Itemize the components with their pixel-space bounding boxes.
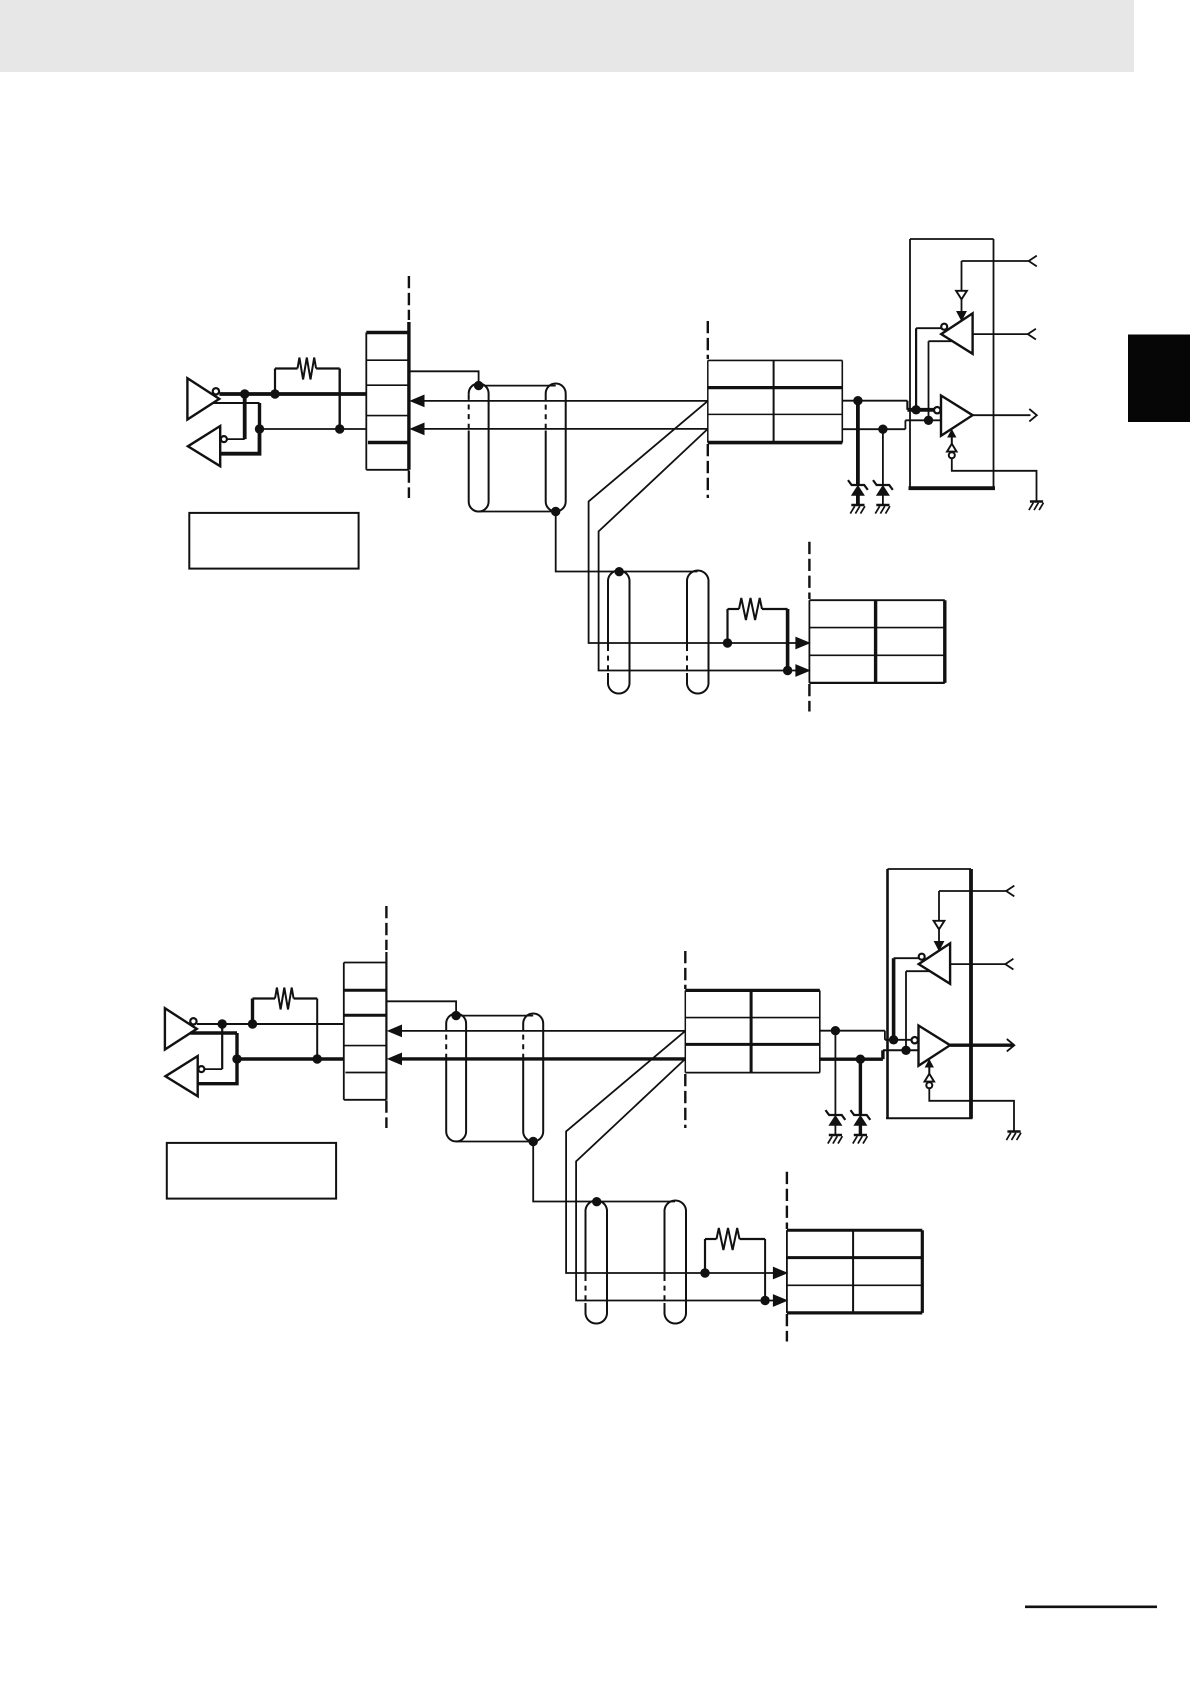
next-unit terminal table (4-wire): [808, 600, 810, 683]
wire A to receiver bubble (4-wire): [243, 394, 247, 439]
terminal block PLC side (4-wire): [365, 333, 367, 470]
wire driver output B (4-wire): [213, 402, 260, 404]
cable top chord (2-wire): [456, 1015, 533, 1017]
wire RD input from connector (2-wire): [939, 890, 1006, 892]
arrowhead into next-unit row3 (2-wire): [773, 1295, 787, 1306]
terminal block boundary line (4-wire): [407, 322, 410, 470]
terminating resistor R-next (4-wire): [726, 609, 728, 643]
connector chevron receiver out (2-wire): [1005, 959, 1013, 970]
dashed boundary below device table (2-wire): [684, 1074, 686, 1128]
dashed boundary below device table (4-wire): [707, 444, 709, 498]
shield junction dot top (4-wire): [474, 381, 483, 390]
enable open triangle (4-wire): [947, 444, 957, 452]
receiver inverter triangle (2-wire): [165, 1056, 197, 1096]
note label box (2-wire): [167, 1143, 336, 1199]
enable bubble (4-wire): [949, 452, 955, 458]
terminating resistor R-left (4-wire): [274, 369, 276, 395]
driver enable arrowhead (2-wire): [926, 1060, 934, 1067]
dashed boundary below block (2-wire): [385, 1101, 387, 1129]
wire shield daisy-chain (4-wire): [556, 512, 620, 572]
footer rule: [1025, 1606, 1157, 1609]
enable open triangle (2-wire): [925, 1074, 935, 1082]
driver output bubble (2-wire): [190, 1018, 196, 1024]
driver enable arrowhead (4-wire): [948, 430, 956, 437]
cable bottom chord (4-wire): [479, 511, 556, 513]
IC receiver output wire (4-wire): [973, 333, 1028, 335]
driver output bubble (4-wire): [213, 388, 219, 394]
dashed boundary below next-unit table (2-wire): [786, 1314, 788, 1342]
enable bubble (2-wire): [926, 1082, 932, 1088]
junction dot B2 resistor (4-wire): [335, 424, 344, 433]
junction dot A2 (4-wire): [270, 389, 279, 398]
IC receiver bubble (4-wire): [941, 324, 947, 330]
twisted pair loop 2a (2-wire): [586, 1200, 608, 1323]
wire row2 to transceiver (4-wire): [842, 400, 907, 402]
zener diode Z1 (2-wire): [826, 1110, 846, 1120]
wire bus A up to receiver (4-wire): [915, 328, 917, 410]
dashed boundary above device table (2-wire): [684, 951, 686, 989]
dashed boundary below next-unit table (4-wire): [808, 684, 810, 712]
junction dot A1 (2-wire): [218, 1019, 227, 1028]
wire RD input from connector (4-wire): [962, 260, 1029, 262]
twisted pair loop 1a (4-wire): [469, 383, 489, 511]
arrowhead RDB (2-wire): [388, 1053, 402, 1064]
filled arrowhead into receiver (4-wire): [957, 312, 966, 321]
shield dot pair2 (2-wire): [592, 1197, 601, 1206]
page header band: [0, 0, 1134, 72]
ground Z1 (4-wire) ground: [851, 504, 864, 507]
cable top chord (4-wire): [479, 385, 556, 387]
junction dot bus B (2-wire): [901, 1046, 910, 1055]
wire row3 to transceiver (2-wire): [820, 1057, 883, 1060]
receiver input bubble (2-wire): [198, 1066, 204, 1072]
arrowhead into next-unit row3 (4-wire): [796, 665, 810, 676]
wire RD input vertical (4-wire): [961, 261, 963, 291]
wire shield chord pair2 (2-wire): [597, 1201, 675, 1203]
wire RDB bus (2-wire): [399, 1057, 686, 1060]
connector chevron RD (2-wire): [1006, 886, 1014, 897]
twisted pair loop 2a (4-wire): [608, 570, 630, 693]
junction dot R2 right (4-wire): [783, 666, 792, 675]
input buffer open triangle (2-wire): [934, 921, 945, 930]
junction dot Z1 (4-wire): [853, 396, 862, 405]
IC driver output wire (4-wire): [973, 414, 1031, 416]
junction dot B2 resistor (2-wire): [313, 1054, 322, 1063]
wire RDA bus (2-wire): [399, 1030, 686, 1032]
IC driver output wire (2-wire): [950, 1043, 1014, 1046]
junction dot R2 left (4-wire): [723, 638, 732, 647]
section thumb tab: [1128, 335, 1190, 423]
IC receiver bubble (2-wire): [919, 954, 925, 960]
driver inverter triangle (2-wire): [165, 1008, 197, 1049]
junction dot Z2 (2-wire): [856, 1055, 865, 1064]
wire shield to terminal (4-wire): [409, 371, 479, 383]
shield junction dot bottom (4-wire): [551, 507, 560, 516]
wire RDA bus (4-wire): [421, 400, 708, 402]
wire A to receiver bubble (2-wire): [221, 1024, 223, 1069]
ground Z1 (2-wire) ground: [829, 1134, 842, 1137]
dashed boundary above block (4-wire): [408, 276, 410, 320]
terminating resistor R-next (2-wire): [704, 1239, 706, 1273]
driver inverter triangle (4-wire): [187, 378, 219, 419]
twisted pair loop 2b (4-wire): [687, 570, 709, 693]
wire branch diagonal A (2-wire): [566, 1031, 774, 1273]
wire shield daisy-chain (2-wire): [533, 1142, 597, 1202]
receiver inverter triangle (4-wire): [188, 426, 220, 466]
zener diode Z2 (2-wire): [851, 1110, 871, 1120]
ground IC (2-wire): [1007, 1130, 1020, 1133]
connector chevron RD (4-wire): [1029, 256, 1037, 267]
twisted pair loop 2b (2-wire): [665, 1200, 687, 1323]
terminating resistor R-left (2-wire): [251, 999, 254, 1025]
input buffer open triangle (4-wire): [956, 291, 967, 300]
terminal block PLC side (2-wire): [343, 963, 345, 1100]
ground Z2 (4-wire) ground: [876, 504, 889, 507]
filled arrowhead into receiver (2-wire): [934, 942, 943, 951]
IC driver triangle (4-wire): [941, 396, 973, 436]
terminal block boundary line (2-wire): [385, 952, 387, 1100]
dashed boundary above device table (4-wire): [707, 321, 709, 359]
note label box (4-wire): [189, 513, 358, 569]
wire driver output A to terminal block (4-wire): [219, 392, 366, 396]
wire RDB bus (4-wire): [421, 428, 708, 430]
wire branch diagonal A (4-wire): [589, 401, 797, 643]
wire row2 to transceiver (2-wire): [820, 1030, 885, 1032]
wire to zener Z2 (2-wire): [859, 1059, 862, 1115]
device terminal table (4-wire): [707, 360, 709, 442]
junction dot A2 (2-wire): [248, 1019, 257, 1028]
junction dot B1 (2-wire): [232, 1054, 241, 1063]
wire to zener Z1 (4-wire): [856, 401, 860, 485]
junction dot Z2 (4-wire): [878, 425, 887, 434]
arrowhead into next-unit row2 (2-wire): [773, 1267, 787, 1278]
wire bus B up to receiver (4-wire): [928, 341, 930, 420]
wire branch diagonal B (2-wire): [576, 1059, 774, 1301]
wire driver output B (2-wire): [190, 1031, 237, 1034]
dashed boundary above block (2-wire): [385, 906, 387, 950]
dashed boundary above next-unit table (4-wire): [808, 542, 810, 599]
IC receiver triangle (2-wire): [919, 943, 950, 983]
IC receiver triangle (4-wire): [941, 313, 972, 353]
wire enable to ground (2-wire): [929, 1088, 1014, 1131]
arrowhead RDB (4-wire): [411, 423, 425, 434]
wire to receiver direct input (2-wire): [198, 1059, 237, 1084]
twisted pair loop 1b (4-wire): [546, 384, 566, 512]
zener diode Z2 (4-wire): [873, 480, 893, 490]
wire branch diagonal B (4-wire): [599, 429, 797, 671]
wire shield to terminal (2-wire): [386, 1001, 456, 1013]
connector chevron driver out (4-wire): [1029, 409, 1037, 421]
shield junction dot top (2-wire): [451, 1011, 460, 1020]
IC driver triangle (2-wire): [919, 1026, 951, 1066]
wire to zener Z2 (4-wire): [882, 429, 884, 485]
shield dot pair2 (4-wire): [615, 567, 624, 576]
wire row3 to transceiver (4-wire): [842, 428, 905, 430]
wire enable to ground (4-wire): [952, 458, 1037, 501]
twisted pair loop 1a (2-wire): [446, 1014, 466, 1142]
IC driver input bubble (2-wire): [912, 1037, 918, 1043]
receiver input bubble (4-wire): [221, 436, 227, 442]
wire to receiver direct input (4-wire): [220, 429, 259, 454]
wire to zener Z1 (2-wire): [834, 1031, 836, 1115]
wire bus A up to receiver (2-wire): [892, 958, 896, 1040]
junction dot Z1 (2-wire): [831, 1026, 840, 1035]
transceiver IC box (2-wire): [886, 869, 889, 1118]
arrowhead into next-unit row2 (4-wire): [796, 637, 810, 648]
cable bottom chord (2-wire): [456, 1141, 533, 1143]
twisted pair loop 1b (2-wire): [523, 1014, 543, 1142]
device terminal table (2-wire): [684, 990, 686, 1072]
junction dot R2 right (2-wire): [760, 1296, 769, 1305]
next-unit terminal table (2-wire): [786, 1230, 788, 1313]
wire driver output A to terminal block (2-wire): [197, 1023, 344, 1025]
connector chevron receiver out (4-wire): [1028, 329, 1036, 340]
ground Z2 (2-wire) ground: [854, 1134, 867, 1137]
wire bus B up to receiver (2-wire): [905, 971, 907, 1050]
shield junction dot bottom (2-wire): [529, 1137, 538, 1146]
transceiver IC box (4-wire): [909, 239, 911, 488]
junction dot bus A (4-wire): [911, 405, 920, 414]
arrowhead RDA (2-wire): [388, 1025, 402, 1036]
junction dot R2 left (2-wire): [700, 1268, 709, 1277]
dashed boundary above next-unit table (2-wire): [786, 1172, 788, 1229]
junction dot bus A (2-wire): [889, 1035, 898, 1044]
zener diode Z1 (4-wire): [848, 480, 868, 490]
wire B to terminal block (4-wire): [260, 428, 367, 430]
dashed boundary below block (4-wire): [408, 471, 410, 499]
IC driver input bubble (4-wire): [934, 407, 940, 413]
connector chevron driver out (2-wire): [1007, 1039, 1015, 1051]
junction dot A1 (4-wire): [240, 389, 249, 398]
junction dot bus B (4-wire): [924, 416, 933, 425]
arrowhead RDA (4-wire): [411, 395, 425, 406]
IC receiver output wire (2-wire): [950, 963, 1005, 965]
wire shield chord pair2 (4-wire): [619, 571, 697, 573]
wire B to terminal block (2-wire): [237, 1057, 344, 1060]
junction dot B1 (4-wire): [255, 424, 264, 433]
wire RD input vertical (2-wire): [938, 891, 940, 921]
ground IC (4-wire): [1030, 500, 1043, 503]
